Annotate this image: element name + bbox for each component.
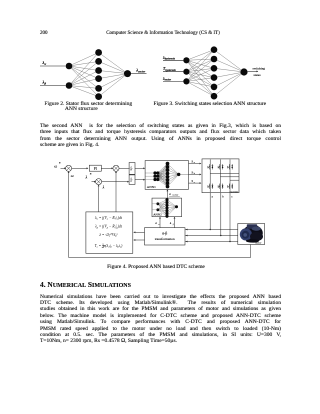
svg-text:ANN2: ANN2 [153, 213, 162, 217]
svg-text:λ: λ [169, 221, 172, 225]
svg-text:hys: hys [130, 166, 133, 170]
svg-text:λsector: λsector [162, 77, 172, 82]
svg-text:switching: switching [253, 67, 266, 71]
svg-text:Motor: Motor [255, 242, 261, 245]
svg-text:c: c [194, 182, 195, 184]
svg-text:a: a [194, 162, 195, 164]
svg-text:ω: ω [71, 173, 74, 178]
svg-text:Thysteresis: Thysteresis [163, 67, 176, 72]
svg-text:*: * [90, 173, 92, 177]
svg-text:ANN1: ANN1 [147, 185, 156, 189]
svg-text:λβ: λβ [42, 80, 47, 86]
svg-text:λ: λ [168, 192, 171, 196]
svg-text:λsector: λsector [135, 68, 146, 74]
svg-text:c: c [231, 195, 233, 198]
svg-text:λ: λ [85, 175, 88, 180]
svg-text:λhysteresis: λhysteresis [162, 56, 175, 61]
svg-text:λα = ∫(Vα − Rsiα)dt: λα = ∫(Vα − Rsiα)dt [94, 216, 123, 221]
svg-text:PI: PI [94, 167, 98, 171]
svg-text:states: states [254, 73, 262, 77]
svg-text:*: * [59, 162, 61, 166]
svg-text:ω: ω [54, 164, 57, 169]
svg-text:converter: converter [230, 191, 239, 193]
svg-text:λ = √λα2+λβ2: λ = √λα2+λβ2 [98, 233, 118, 238]
svg-text:hys: hys [130, 178, 133, 182]
svg-text:α-β: α-β [162, 232, 167, 236]
svg-text:λ: λ [102, 184, 105, 189]
svg-text:a: a [212, 195, 214, 198]
svg-text:λβ = ∫(Vβ − Rsiβ)dt: λβ = ∫(Vβ − Rsiβ)dt [94, 225, 123, 230]
svg-text:λ: λ [154, 221, 157, 225]
svg-text:b: b [194, 173, 196, 175]
svg-text:transformation: transformation [155, 237, 175, 241]
svg-text:b: b [222, 195, 224, 198]
svg-text:Te = 32p(λαiβ − λβiα): Te = 32p(λαiβ − λβiα) [95, 244, 124, 250]
svg-text:λα: λα [42, 60, 47, 66]
